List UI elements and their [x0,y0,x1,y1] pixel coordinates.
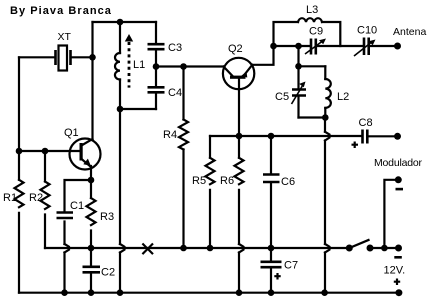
antenna terminal [394,43,401,50]
node C6 rail [268,133,275,140]
resistor R3 [87,198,96,225]
node C1 bottom [61,289,68,296]
bottom rail [19,292,399,294]
node R4 tap [180,63,187,70]
svg-text:C7: C7 [284,260,298,272]
hop L1 column over switch rail [120,244,125,253]
node base-R1 [16,148,23,155]
plus C8 [352,142,359,149]
svg-text:C10: C10 [357,25,377,37]
node emitter C1 tap [88,177,95,184]
node tank bottom [322,114,329,121]
svg-text:C2: C2 [101,267,115,279]
resistor R1 [15,180,24,208]
svg-text:C4: C4 [168,87,182,99]
wire L1 lower column [119,109,121,293]
node Q2 emitter rail [236,133,243,140]
capacitor C4 [155,67,157,110]
node R6 bottom [236,289,243,296]
resistor R4 [182,67,184,249]
wire top rail [93,21,157,23]
svg-text:C9: C9 [309,26,323,38]
plus C7 [274,273,280,280]
hop C1 over switch rail [65,244,70,253]
wire tank feed down [297,46,299,66]
wire C1 branch [65,180,92,293]
inductor L1 branch [119,22,121,109]
wire left column R1 [18,57,20,292]
node L1 bottom [117,106,124,113]
capacitor C8 [363,130,368,144]
node base-R2 [42,148,49,155]
svg-text:C6: C6 [281,176,295,188]
node R5 bottom [207,245,214,252]
node modulator tap [381,245,388,252]
svg-text:R6: R6 [220,175,234,187]
svg-text:R1: R1 [3,192,17,204]
wire Q1 collector column [91,22,93,139]
crystal XT [56,46,71,71]
capacitor C6 [270,136,272,248]
plus 12V [394,279,400,286]
svg-text:C3: C3 [168,42,182,54]
hop L2 over switch rail [325,244,330,253]
inductor L3 loop [274,22,299,46]
svg-text:Modulador: Modulador [374,157,423,169]
capacitor C1 [57,213,74,219]
wire output node line [274,45,398,47]
svg-text:Q2: Q2 [228,43,243,55]
wire Q1 emitter column [90,166,92,248]
tank top wire [299,65,326,67]
wire base wire Q1 [19,150,80,152]
node C6 C7 [268,245,275,252]
svg-text:L1: L1 [133,59,145,71]
capacitor C9 trimmer [311,39,316,55]
node C7 bottom [268,289,275,296]
rail2 emitter rail [210,135,362,137]
inductor L2 [324,66,326,117]
transistor Q1 [70,139,101,170]
node XT junction [89,54,96,61]
terminal 12V minus [395,245,402,252]
node L2 bottom [321,289,328,296]
resistor R5 [209,136,211,248]
svg-text:C8: C8 [359,117,373,129]
svg-text:C1: C1 [70,200,84,212]
node R3C2 [88,245,95,252]
wire mid to Q2 base [156,65,223,67]
svg-text:12V.: 12V. [384,265,406,277]
resistor R6 [238,136,240,293]
node R4 bottom [180,245,187,252]
hop R6 over switch rail [239,244,244,253]
svg-text:R3: R3 [100,211,114,223]
capacitor C2 [90,248,92,293]
node L1 bottom rail [117,289,124,296]
wire XT right to collector column [72,56,93,58]
capacitor C10 trimmer [364,38,369,56]
transistor Q2 [223,58,254,90]
svg-text:XT: XT [58,31,72,43]
node tank top [295,63,302,70]
X mark [142,244,153,255]
modulator terminal [395,176,402,183]
svg-text:L2: L2 [337,91,349,103]
svg-text:R4: R4 [163,129,177,141]
svg-text:L3: L3 [306,4,318,16]
svg-text:R5: R5 [192,175,206,187]
node C2 bottom [88,289,95,296]
tank bottom wire [299,116,326,118]
capacitor C5 variable [297,66,299,117]
node collector junction [270,43,277,50]
svg-text:Antena: Antena [393,26,426,38]
wire L1 bottom to C4 [120,108,156,110]
capacitor C3 branch [155,22,157,67]
switch rail wire [45,247,399,249]
node tank feed [295,43,302,50]
arrow core L1 [125,34,133,88]
resistor R2 [41,182,50,210]
terminal 12V plus [395,289,402,296]
wire L2 drop [324,118,326,293]
wire Q2 collector [252,46,273,65]
hop L2 over rail2 [325,132,330,141]
minus modulator [396,188,404,191]
wire Q2 emitter down [238,90,240,137]
wire R2 column [44,151,46,248]
svg-text:Q1: Q1 [64,127,79,139]
node L1 top [117,19,124,26]
svg-text:C5: C5 [275,91,289,103]
wire modulator branch [384,180,398,248]
svg-text:By Piava Branca: By Piava Branca [10,5,112,17]
node C3C4 mid [153,63,160,70]
capacitor C7 [270,248,272,293]
wire XT left [19,56,55,58]
svg-text:R2: R2 [29,192,43,204]
switch S1 [346,245,353,252]
